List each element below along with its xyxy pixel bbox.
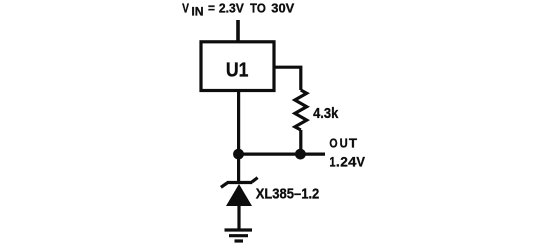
- label OUT: [329, 136, 357, 151]
- wire VIN to U1: [236, 20, 240, 42]
- zener bar right tick: [252, 178, 258, 182]
- wire U1 bottom to node A: [237, 91, 240, 155]
- zener diode D1 cathode bar: [227, 181, 253, 184]
- wire node A to zener: [237, 154, 240, 183]
- wire U1 right to resistor top: [276, 67, 301, 90]
- wire node A to OUT: [239, 153, 325, 156]
- zener diode D1 triangle: [226, 184, 252, 206]
- svg-text:VIN=2.3VTO30V: VIN=2.3VTO30V: [182, 1, 295, 19]
- resistor R1 4.3k: [295, 90, 307, 130]
- node OUT junction dot: [295, 149, 306, 160]
- op-amp U1 box: [201, 42, 274, 91]
- net VIN label: [182, 1, 295, 19]
- U1 label: [226, 60, 249, 82]
- wire resistor bottom to OUT node: [299, 130, 302, 154]
- label 4.3k: [313, 105, 339, 122]
- label 1.24V: [329, 153, 365, 169]
- label XL385-1.2: [256, 185, 320, 202]
- svg-text:4.3k: 4.3k: [313, 105, 339, 122]
- svg-text:XL385–1.2: XL385–1.2: [256, 185, 320, 202]
- ground: [225, 228, 253, 231]
- svg-text:OUT: OUT: [329, 136, 357, 151]
- svg-text:U1: U1: [226, 60, 249, 82]
- svg-text:1.24V: 1.24V: [329, 153, 365, 169]
- wire zener to ground: [237, 206, 240, 229]
- node A junction dot: [233, 149, 244, 160]
- zener bar left tick: [221, 183, 227, 187]
